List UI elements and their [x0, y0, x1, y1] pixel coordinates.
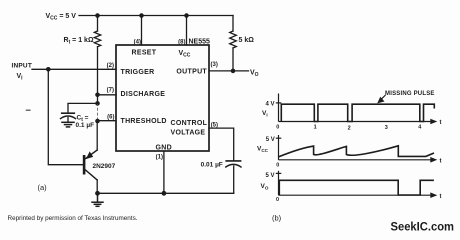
svg-text:0.1 µF: 0.1 µF [76, 122, 95, 129]
wire VCC top rail [79, 15, 233, 17]
svg-text:0.01 µF: 0.01 µF [201, 162, 223, 169]
wire VCC rail corner to 5k resistor [232, 16, 234, 32]
svg-text:t: t [440, 158, 442, 164]
node pin6 junction [95, 119, 100, 124]
svg-text:VI: VI [262, 110, 268, 117]
svg-text:Rt = 1 kΩ: Rt = 1 kΩ [64, 37, 94, 46]
svg-text:VCC: VCC [179, 50, 191, 59]
svg-text:VOLTAGE: VOLTAGE [171, 130, 206, 137]
axis arrow t (VO) [430, 192, 437, 198]
svg-text:(5): (5) [211, 122, 218, 128]
waveform VO axes [276, 171, 433, 195]
capacitor C2 curved plate [226, 164, 241, 167]
node Ct tap junction [95, 101, 100, 106]
svg-text:NE555: NE555 [189, 39, 211, 46]
node pin7 junction [95, 93, 100, 98]
svg-text:DISCHARGE: DISCHARGE [121, 91, 166, 98]
wire 0.01uF to ground rail [233, 166, 235, 193]
svg-text:(b): (b) [272, 214, 282, 223]
svg-text:RESET: RESET [132, 49, 157, 56]
wire input node down to transistor base [48, 69, 83, 164]
wire bottom ground rail [98, 192, 234, 194]
capacitor Ct top plate [62, 112, 75, 114]
capacitor Ct curved plate [61, 116, 76, 119]
svg-text:2: 2 [348, 125, 351, 131]
node pin8 tap on VCC rail [184, 13, 189, 18]
wire 5k resistor to output node [232, 48, 234, 71]
svg-text:(6): (6) [107, 114, 114, 120]
ground for transistor [92, 193, 103, 206]
wire VCC rail to Rt [97, 16, 99, 32]
svg-text:0: 0 [276, 124, 279, 130]
node pin4 tap on VCC rail [139, 13, 144, 18]
wire input to trigger pin 2 [32, 68, 116, 70]
svg-text:GND: GND [156, 145, 172, 152]
arrow to missing pulse [380, 95, 386, 101]
transistor emitter lead with arrow [96, 121, 98, 150]
ground for Ct [62, 122, 74, 127]
waveform VO trace [279, 180, 434, 195]
wire Ct branch [68, 103, 98, 112]
resistor Rt 1 kohm [94, 31, 100, 47]
svg-text:INPUT: INPUT [12, 63, 33, 70]
wire Ct to ground [67, 118, 69, 122]
node collector/rail junction [95, 191, 100, 196]
waveform VI axes [276, 94, 433, 122]
svg-text:VO: VO [261, 183, 269, 190]
wire Rt to pins 7/6 junction [97, 47, 99, 95]
svg-text:(7): (7) [107, 87, 114, 93]
op-amp U1 NE555 body [116, 45, 209, 151]
svg-text:CONTROL: CONTROL [171, 120, 208, 127]
svg-text:THRESHOLD: THRESHOLD [121, 118, 167, 125]
svg-text:5 V: 5 V [265, 173, 274, 179]
svg-text:VCC: VCC [257, 146, 269, 153]
svg-text:Reprinted by permission of Tex: Reprinted by permission of Texas Instrum… [8, 215, 138, 222]
svg-text:0: 0 [276, 197, 279, 203]
svg-text:(4): (4) [134, 39, 141, 45]
waveform VC axes [276, 135, 433, 160]
svg-text:0: 0 [276, 162, 279, 168]
transistor Q1 2N2907 base bar [83, 155, 86, 175]
transistor collector lead [85, 170, 97, 180]
node GND pin rail junction [162, 191, 167, 196]
svg-text:(8): (8) [178, 40, 185, 46]
wire threshold pin 6 [98, 120, 117, 122]
resistor 5 kohm [230, 31, 237, 48]
wire pin8 [186, 16, 188, 46]
wire control voltage pin 5 to 0.01uF [209, 128, 234, 160]
svg-text:MISSING PULSE: MISSING PULSE [385, 91, 435, 97]
waveform VC trace [279, 146, 434, 157]
wire GND pin 1 [163, 151, 165, 193]
svg-text:(1): (1) [156, 155, 163, 161]
svg-text:3: 3 [385, 125, 388, 131]
node Rt tap on VCC rail [95, 13, 100, 18]
svg-text:4: 4 [418, 125, 422, 131]
svg-text:t: t [440, 120, 442, 126]
axis arrow t (VC) [430, 157, 437, 163]
svg-text:OUTPUT: OUTPUT [176, 69, 207, 76]
capacitor C2 0.01uF top plate [226, 160, 240, 162]
svg-text:1: 1 [314, 124, 317, 130]
waveform VI trace [281, 104, 434, 121]
wire Ct tap to threshold junction (faint) [97, 103, 99, 121]
node input junction [46, 67, 51, 72]
svg-text:VI: VI [17, 73, 24, 82]
wire pin7 junction to Ct tap [97, 95, 99, 104]
axis arrow t (VI) [430, 119, 437, 125]
svg-text:4 V: 4 V [265, 101, 274, 107]
svg-text:(a): (a) [38, 183, 48, 192]
minus dash mark [26, 109, 31, 111]
svg-text:5 V: 5 V [266, 137, 275, 143]
svg-text:(3): (3) [211, 62, 218, 68]
svg-text:t: t [440, 194, 442, 200]
svg-text:VO: VO [250, 69, 259, 78]
svg-text:(2): (2) [107, 63, 114, 69]
svg-text:VCC = 5 V: VCC = 5 V [46, 13, 77, 22]
node VO output [231, 69, 236, 74]
wire output pin 3 to VO [209, 70, 249, 72]
svg-text:2N2907: 2N2907 [93, 163, 116, 170]
svg-text:TRIGGER: TRIGGER [121, 69, 155, 76]
svg-text:SeekIC.com: SeekIC.com [391, 221, 455, 233]
wire discharge pin 7 [98, 94, 117, 96]
wire pin4 [141, 16, 143, 46]
svg-text:5 kΩ: 5 kΩ [239, 37, 255, 44]
